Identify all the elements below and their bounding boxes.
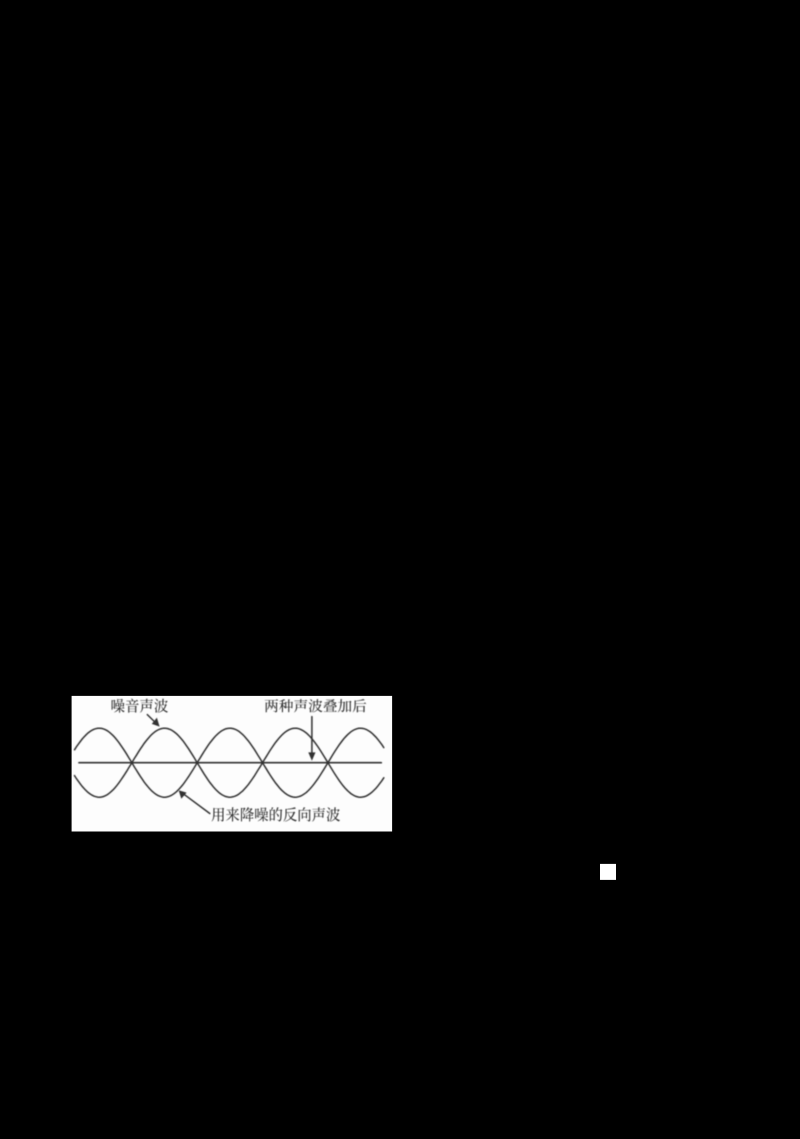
arrow shaft vertical to axis — [311, 717, 313, 755]
diagram panel — [72, 696, 393, 832]
label: noise sound wave — [112, 699, 168, 713]
arrow shaft from noise label — [147, 715, 156, 724]
arrowhead to axis — [308, 752, 315, 760]
axis line (superposed result) — [79, 762, 381, 764]
arrowhead to noise wave — [152, 718, 160, 727]
arrow shaft from anti-noise label — [183, 793, 210, 813]
label: after the two waves superpose — [265, 699, 367, 712]
label: inverted wave used for noise reduction — [212, 807, 340, 821]
anti-noise wave — [75, 728, 384, 797]
arrowhead to anti-noise wave — [179, 790, 187, 799]
noise wave — [75, 728, 384, 797]
white square marker — [600, 864, 616, 880]
